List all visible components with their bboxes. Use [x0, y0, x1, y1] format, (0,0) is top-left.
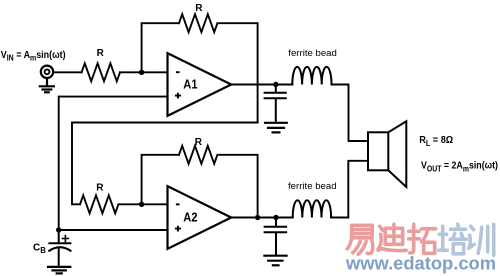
svg-text:A1: A1 — [183, 77, 197, 91]
wire A1 output — [231, 84, 292, 86]
svg-text:VOUT = 2Amsin(ωt): VOUT = 2Amsin(ωt) — [421, 161, 498, 174]
char tuo — [409, 224, 436, 253]
bridge wire A1 out to A2 in — [72, 123, 258, 205]
node A1 in — [139, 70, 144, 75]
char yi — [347, 225, 373, 254]
ferrite bead 1 — [292, 67, 331, 85]
node A1 out — [273, 82, 278, 87]
wire A2 output — [231, 217, 293, 219]
op-amp A1 — [168, 53, 232, 116]
source V_IN terminal — [41, 66, 53, 78]
capacitor C1 — [265, 85, 286, 123]
plus A2 — [175, 226, 181, 232]
char pei — [439, 224, 467, 254]
svg-text:R: R — [96, 182, 104, 193]
resistor R2 (A2 input) — [80, 195, 118, 213]
svg-text:R: R — [97, 48, 105, 59]
ground (C_B) — [48, 267, 70, 274]
wire feedback up A2 — [142, 155, 179, 205]
capacitor C2 — [265, 218, 287, 256]
minus A2 — [176, 203, 180, 205]
ground (C1) — [265, 123, 287, 133]
wire source to R1 — [53, 71, 81, 73]
char xun — [469, 224, 494, 255]
plus sign C_B — [62, 236, 68, 242]
resistor R feedback A1 — [179, 14, 217, 32]
ground (source) — [40, 78, 54, 92]
svg-text:R: R — [195, 3, 203, 14]
wire R2 to A2 inverting input — [120, 203, 168, 205]
wire feedback down A2 — [219, 155, 257, 218]
wire feedback down A1 — [219, 23, 257, 122]
svg-text:VIN = Amsin(ωt): VIN = Amsin(ωt) — [1, 50, 66, 63]
resistor R1 — [82, 63, 120, 81]
svg-text:ferrite bead: ferrite bead — [288, 181, 337, 192]
svg-text:R: R — [195, 137, 203, 148]
ferrite bead 2 — [293, 200, 331, 217]
watermark CJK characters — [347, 224, 494, 255]
plus A1 — [175, 93, 181, 99]
capacitor C_B polarized — [49, 230, 70, 267]
node A2 out — [273, 215, 278, 220]
resistor R feedback A2 — [179, 146, 217, 164]
wire R1 to A1 inverting input — [120, 71, 168, 73]
svg-text:www.edatop.com: www.edatop.com — [345, 253, 496, 274]
minus A1 — [176, 71, 180, 73]
wire bead1 to speaker — [332, 85, 369, 142]
wire feedback up A1 — [142, 23, 179, 72]
svg-text:RL = 8Ω: RL = 8Ω — [419, 135, 453, 148]
wire C_B node to A2 + input — [59, 229, 168, 231]
op-amp A2 — [168, 186, 232, 249]
svg-text:A2: A2 — [183, 210, 197, 224]
svg-text:CB: CB — [33, 242, 46, 255]
svg-text:ferrite bead: ferrite bead — [288, 48, 337, 59]
node A2 in — [139, 202, 144, 207]
node C_B — [56, 227, 61, 232]
ground (C2) — [264, 256, 286, 266]
speaker R_L — [368, 121, 406, 187]
node A2 feedback tap — [255, 215, 260, 220]
wire bead2 to speaker — [331, 161, 368, 218]
wire A1 + input — [59, 97, 168, 230]
char di — [378, 224, 406, 250]
